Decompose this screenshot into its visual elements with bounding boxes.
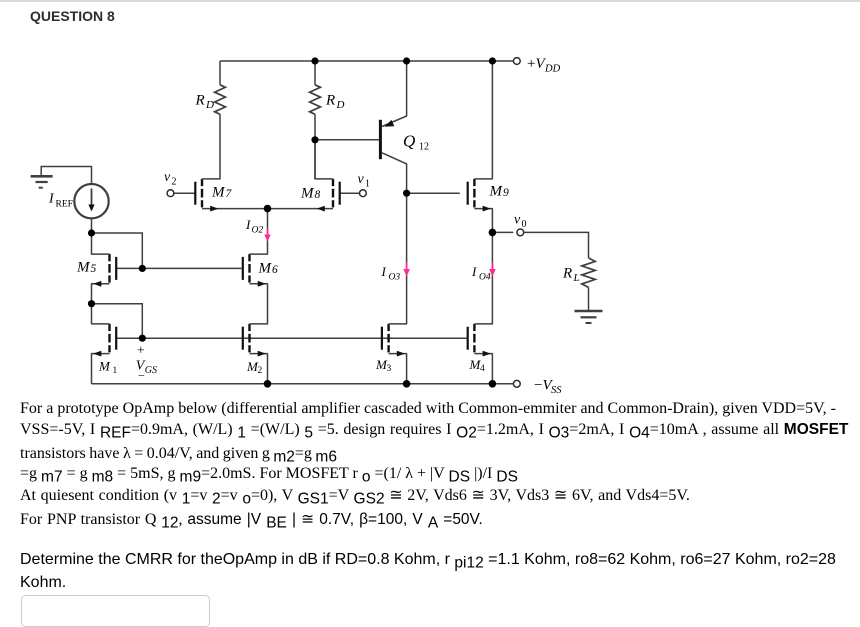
svg-text:M: M bbox=[489, 184, 504, 200]
svg-text:O4: O4 bbox=[479, 273, 491, 283]
svg-text:M: M bbox=[211, 185, 226, 201]
svg-text:M: M bbox=[76, 260, 91, 276]
svg-text:v: v bbox=[358, 172, 365, 187]
svg-text:4: 4 bbox=[480, 364, 485, 374]
svg-text:I: I bbox=[471, 264, 477, 279]
svg-text:7: 7 bbox=[226, 188, 233, 200]
svg-text:0: 0 bbox=[522, 219, 527, 230]
svg-text:Q: Q bbox=[403, 132, 415, 151]
svg-text:R: R bbox=[562, 266, 572, 282]
svg-text:8: 8 bbox=[315, 189, 321, 201]
svg-text:3: 3 bbox=[387, 364, 392, 374]
svg-text:I: I bbox=[48, 192, 55, 207]
svg-text:5: 5 bbox=[91, 263, 97, 275]
svg-text:9: 9 bbox=[503, 187, 509, 199]
svg-text:M: M bbox=[300, 186, 315, 202]
svg-text:SS: SS bbox=[551, 385, 562, 396]
svg-text:R: R bbox=[325, 93, 335, 109]
svg-text:M: M bbox=[258, 261, 273, 277]
svg-text:−: − bbox=[138, 369, 145, 383]
svg-text:O3: O3 bbox=[389, 273, 401, 283]
svg-text:M: M bbox=[98, 358, 111, 373]
svg-text:O2: O2 bbox=[252, 226, 264, 236]
svg-text:I: I bbox=[245, 217, 251, 232]
svg-text:L: L bbox=[573, 272, 580, 284]
svg-text:12: 12 bbox=[419, 142, 429, 153]
svg-text:R: R bbox=[195, 93, 205, 109]
svg-text:D: D bbox=[205, 99, 214, 111]
svg-text:2: 2 bbox=[172, 177, 177, 188]
svg-text:2: 2 bbox=[258, 366, 263, 376]
svg-text:I: I bbox=[381, 264, 387, 279]
svg-text:DD: DD bbox=[544, 64, 561, 75]
svg-text:+: + bbox=[137, 343, 145, 358]
svg-text:v: v bbox=[164, 170, 171, 185]
svg-text:1: 1 bbox=[365, 179, 370, 190]
svg-text:v: v bbox=[514, 213, 521, 228]
svg-text:REF: REF bbox=[56, 200, 73, 210]
svg-text:6: 6 bbox=[272, 264, 278, 276]
svg-text:+V: +V bbox=[527, 56, 546, 72]
svg-text:1: 1 bbox=[113, 366, 118, 376]
svg-text:GS: GS bbox=[145, 365, 157, 376]
svg-text:D: D bbox=[336, 99, 345, 111]
